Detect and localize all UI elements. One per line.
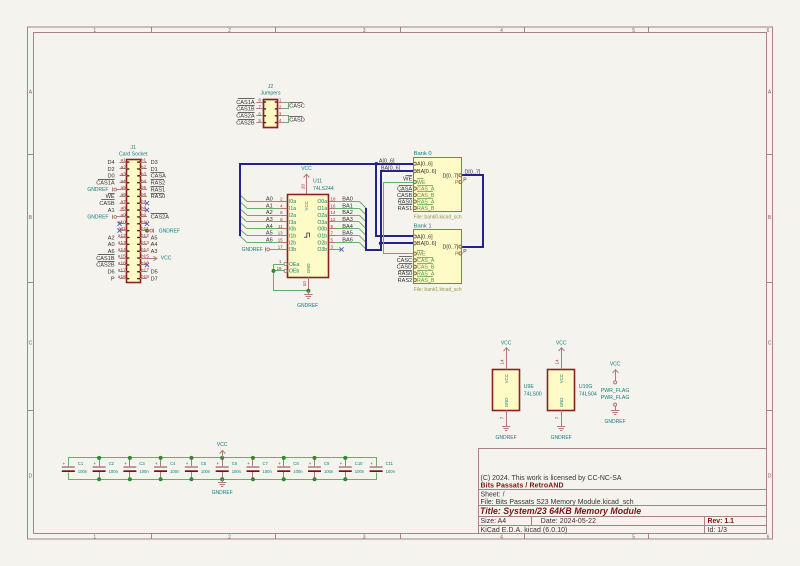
svg-text:CAS_B: CAS_B xyxy=(417,193,435,199)
svg-text:RAS1: RAS1 xyxy=(398,206,413,212)
svg-text:5: 5 xyxy=(632,534,635,540)
svg-text:File: bank1.kicad_sch: File: bank1.kicad_sch xyxy=(414,287,462,293)
power GNDREF at J1 a9 xyxy=(117,216,120,218)
power VCC at capacitor rail xyxy=(222,450,224,458)
svg-text:BA1: BA1 xyxy=(342,203,353,209)
svg-text:CAS2A: CAS2A xyxy=(151,215,170,221)
capacitor C3 xyxy=(123,458,149,479)
svg-text:O0a: O0a xyxy=(317,199,327,205)
svg-text:a15: a15 xyxy=(118,254,126,260)
svg-text:18: 18 xyxy=(331,196,336,201)
svg-text:CAS1B: CAS1B xyxy=(236,107,255,113)
label CASD xyxy=(289,116,302,118)
U9E pin 7 xyxy=(506,410,508,427)
svg-text:b4: b4 xyxy=(141,178,147,184)
svg-text:CASB: CASB xyxy=(99,201,115,207)
capacitor C5 xyxy=(185,458,211,479)
svg-text:WE: WE xyxy=(403,176,412,182)
svg-text:O3b: O3b xyxy=(317,247,327,253)
svg-text:A1: A1 xyxy=(108,208,115,214)
svg-text:GNDREF: GNDREF xyxy=(605,419,626,425)
label RAS1 at Bank 0 xyxy=(399,204,412,206)
frame column labels xyxy=(93,28,769,540)
svg-text:A3: A3 xyxy=(151,249,158,255)
label CASC xyxy=(289,102,302,104)
svg-text:BA4: BA4 xyxy=(342,224,353,230)
no-connect J1 a10 xyxy=(117,222,121,226)
bus BA[0..6] branch to Bank 1 xyxy=(381,242,414,244)
junctions on VCC rail xyxy=(97,456,347,460)
label CASD at Bank 1 xyxy=(399,263,412,265)
power VCC at PWR_FLAG xyxy=(615,370,617,381)
svg-text:GNDREF: GNDREF xyxy=(87,187,108,193)
svg-text:C1: C1 xyxy=(78,461,84,466)
U11 right pin names and numbers xyxy=(317,196,336,253)
svg-text:D[0..7]: D[0..7] xyxy=(443,245,459,251)
svg-text:A6: A6 xyxy=(266,238,273,244)
svg-text:15: 15 xyxy=(278,238,283,243)
svg-text:VCC: VCC xyxy=(559,374,564,383)
svg-text:6: 6 xyxy=(767,534,770,540)
svg-text:a7: a7 xyxy=(120,199,126,205)
svg-text:C5: C5 xyxy=(201,461,207,466)
svg-text:VCC: VCC xyxy=(304,201,309,210)
svg-text:CASC: CASC xyxy=(397,258,413,264)
label CAS1B xyxy=(98,254,115,256)
svg-text:100n: 100n xyxy=(232,469,242,474)
svg-text:P: P xyxy=(455,251,459,257)
label CAS2A xyxy=(238,112,255,114)
label RAS2 xyxy=(151,179,164,181)
svg-text:b12: b12 xyxy=(141,233,149,239)
svg-text:5: 5 xyxy=(632,28,635,34)
wire BA6 xyxy=(336,242,359,244)
svg-text:1: 1 xyxy=(93,534,96,540)
svg-text:CASD: CASD xyxy=(289,117,305,123)
svg-text:J2: J2 xyxy=(268,84,274,90)
svg-text:GND: GND xyxy=(504,398,509,408)
svg-text:12: 12 xyxy=(331,217,336,222)
svg-text:a14: a14 xyxy=(118,247,126,253)
power VCC above U9E xyxy=(506,348,508,370)
svg-text:74LS04: 74LS04 xyxy=(579,391,597,397)
bus entry A4 xyxy=(240,222,247,229)
buffer U11 body xyxy=(288,195,329,278)
svg-text:100n: 100n xyxy=(201,469,211,474)
label RAS1 xyxy=(151,186,164,188)
svg-text:A[0..6]: A[0..6] xyxy=(379,158,395,164)
svg-text:b3: b3 xyxy=(141,171,147,177)
label CAS2B xyxy=(238,119,255,121)
svg-text:b13: b13 xyxy=(141,240,149,246)
wire WE Bank0 to Bank1 xyxy=(384,183,414,254)
svg-text:A[0..6]: A[0..6] xyxy=(417,234,433,240)
label RAS0 xyxy=(151,193,164,195)
svg-text:P: P xyxy=(455,180,459,186)
svg-text:BA6: BA6 xyxy=(342,238,353,244)
svg-text:Bank 0: Bank 0 xyxy=(414,151,432,157)
capacitor C6 xyxy=(216,458,242,479)
ground GNDREF at capacitor rail xyxy=(222,479,224,482)
svg-text:GNDREF: GNDREF xyxy=(242,247,263,253)
svg-text:Title: System/23 64KB Memory M: Title: System/23 64KB Memory Module xyxy=(480,506,641,516)
svg-text:CASB: CASB xyxy=(397,193,413,199)
svg-text:CAS1B: CAS1B xyxy=(96,256,115,262)
svg-text:a13: a13 xyxy=(118,240,126,246)
svg-text:(C) 2024. This work is license: (C) 2024. This work is licensed by CC-NC… xyxy=(481,475,622,482)
svg-text:BA2: BA2 xyxy=(342,210,353,216)
wire J2 pin3 to pin4 xyxy=(285,116,289,123)
svg-text:PWR_FLAG: PWR_FLAG xyxy=(601,395,630,401)
svg-text:Date: 2024-05-22: Date: 2024-05-22 xyxy=(541,518,596,525)
svg-text:C6: C6 xyxy=(232,461,238,466)
svg-text:GNDREF: GNDREF xyxy=(551,435,572,441)
U11 pin 20 (VCC) xyxy=(306,180,308,195)
svg-text:a9: a9 xyxy=(120,213,126,219)
svg-text:VCC: VCC xyxy=(556,340,567,346)
svg-text:b6: b6 xyxy=(141,192,147,198)
wire A0 xyxy=(247,201,280,203)
svg-text:O2b: O2b xyxy=(317,240,327,246)
svg-text:b9: b9 xyxy=(141,213,147,219)
gate U10G power unit xyxy=(548,370,575,411)
svg-text:U11: U11 xyxy=(313,179,322,185)
svg-text:+: + xyxy=(247,461,250,466)
wire GNDREF rail xyxy=(69,473,377,480)
svg-text:U9E: U9E xyxy=(524,384,535,390)
svg-text:+: + xyxy=(278,461,281,466)
svg-text:I3b: I3b xyxy=(289,247,296,253)
svg-text:100n: 100n xyxy=(324,469,334,474)
svg-text:13: 13 xyxy=(278,231,283,236)
label CASB xyxy=(101,199,114,201)
svg-text:BA5: BA5 xyxy=(342,231,353,237)
svg-text:CASA: CASA xyxy=(151,174,167,180)
connector J1 pins xyxy=(120,162,148,279)
frame column ticks xyxy=(152,27,649,539)
U11 buffer glyph xyxy=(304,233,309,237)
svg-text:GNDREF: GNDREF xyxy=(159,228,180,234)
svg-text:Sheet: /: Sheet: / xyxy=(481,492,505,499)
svg-text:O1a: O1a xyxy=(317,206,327,212)
svg-text:BA3: BA3 xyxy=(342,217,353,223)
sheet Bank 0 body xyxy=(414,158,462,212)
svg-text:+: + xyxy=(93,461,96,466)
label CASB at Bank 0 xyxy=(399,191,412,193)
label RAS2 at Bank 1 xyxy=(399,276,412,278)
label CASA xyxy=(151,172,164,174)
capacitor C8 xyxy=(277,458,303,479)
svg-text:20: 20 xyxy=(300,184,305,190)
bus entry A1 xyxy=(240,201,247,208)
svg-text:C: C xyxy=(29,341,33,347)
svg-text:CAS2B: CAS2B xyxy=(96,263,115,269)
svg-text:D1: D1 xyxy=(151,167,158,173)
svg-text:C: C xyxy=(768,341,772,347)
svg-text:BA[0..6]: BA[0..6] xyxy=(417,169,437,175)
capacitor C11 xyxy=(370,461,396,474)
svg-text:b1: b1 xyxy=(141,158,147,164)
svg-text:CASC: CASC xyxy=(289,104,305,110)
svg-text:A3: A3 xyxy=(266,217,273,223)
capacitor C9 xyxy=(308,458,334,479)
svg-text:RAS2: RAS2 xyxy=(151,181,166,187)
label RAS0 at Bank 0 xyxy=(399,198,412,200)
svg-text:16: 16 xyxy=(331,203,336,208)
no-connect J1 a11 xyxy=(117,229,121,233)
bus entry A3 xyxy=(240,215,247,222)
title block frame xyxy=(478,448,766,534)
bus junction A xyxy=(375,162,379,166)
label WE at Bank 0 xyxy=(406,175,413,177)
svg-text:C11: C11 xyxy=(386,461,394,466)
U11 pin 1 OEa xyxy=(274,264,285,266)
power GNDREF at J1 a5 xyxy=(117,189,120,191)
svg-text:A[0..6]: A[0..6] xyxy=(417,162,433,168)
ground GNDREF at PWR_FLAG xyxy=(611,410,619,412)
svg-text:10: 10 xyxy=(302,281,307,287)
bus entry BA5 xyxy=(359,236,366,243)
svg-text:BA[0..6]: BA[0..6] xyxy=(381,166,401,172)
svg-text:A4: A4 xyxy=(266,224,273,230)
svg-text:+: + xyxy=(340,461,343,466)
svg-text:2: 2 xyxy=(228,28,231,34)
wire BA1 xyxy=(336,208,359,210)
svg-text:100n: 100n xyxy=(293,469,303,474)
bus entry A6 xyxy=(240,236,247,243)
ground GNDREF below U9E xyxy=(502,426,510,428)
svg-text:BA[0..6]: BA[0..6] xyxy=(417,241,437,247)
svg-text:74LS244: 74LS244 xyxy=(313,186,334,192)
capacitor C1 xyxy=(62,461,88,474)
no-connect J1 b16 xyxy=(145,263,149,267)
connector J1 pin numbers xyxy=(118,158,149,281)
svg-text:O2a: O2a xyxy=(317,213,327,219)
sheet Bank 0 left pins xyxy=(413,162,436,212)
svg-text:100n: 100n xyxy=(170,469,180,474)
svg-text:GNDREF: GNDREF xyxy=(496,435,517,441)
svg-text:Rev: 1.1: Rev: 1.1 xyxy=(708,518,735,525)
label CAS1A xyxy=(238,98,255,100)
wire A6 xyxy=(247,242,280,244)
label CAS1B xyxy=(238,105,255,107)
svg-text:CAS1A: CAS1A xyxy=(96,181,115,187)
svg-text:C3: C3 xyxy=(139,461,145,466)
svg-text:KiCad E.D.A. kicad (6.0.10): KiCad E.D.A. kicad (6.0.10) xyxy=(481,527,568,534)
svg-text:Id: 1/3: Id: 1/3 xyxy=(708,527,728,534)
svg-text:+: + xyxy=(63,461,66,466)
svg-text:P: P xyxy=(111,276,115,282)
svg-text:OEb: OEb xyxy=(289,269,299,275)
svg-text:C10: C10 xyxy=(355,461,363,466)
junction OEb xyxy=(272,269,276,273)
svg-text:C8: C8 xyxy=(293,461,299,466)
label CASC at Bank 1 xyxy=(399,256,412,258)
svg-text:b2: b2 xyxy=(141,165,147,171)
svg-text:+: + xyxy=(217,461,220,466)
svg-text:3: 3 xyxy=(363,534,366,540)
label CASA at Bank 0 xyxy=(399,185,412,187)
sheet Bank 1 body xyxy=(414,230,462,284)
U10G pin 7 xyxy=(561,410,563,427)
svg-text:PWR_FLAG: PWR_FLAG xyxy=(601,388,630,394)
svg-text:CAS_B: CAS_B xyxy=(417,265,435,271)
svg-text:100n: 100n xyxy=(263,469,273,474)
svg-text:100n: 100n xyxy=(355,469,365,474)
svg-text:CAS2B: CAS2B xyxy=(236,120,255,126)
capacitor C10 xyxy=(339,458,365,479)
svg-text:OEa: OEa xyxy=(289,262,299,268)
U11 pin 19 OEb xyxy=(274,270,285,272)
svg-text:17: 17 xyxy=(278,244,283,249)
svg-text:b5: b5 xyxy=(141,185,147,191)
frame row labels xyxy=(29,90,772,480)
wire A1 xyxy=(247,208,280,210)
wire OE to ground xyxy=(274,265,309,291)
wire J2 pin1 to pin2 xyxy=(285,103,289,109)
label CAS2B xyxy=(98,261,115,263)
bus junction BA xyxy=(379,242,383,246)
svg-text:+: + xyxy=(309,461,312,466)
svg-text:7: 7 xyxy=(500,416,506,419)
svg-text:I0b: I0b xyxy=(289,227,296,233)
bus entry A0 xyxy=(240,195,247,202)
svg-text:GND: GND xyxy=(306,263,311,273)
svg-text:I3a: I3a xyxy=(289,220,296,226)
svg-text:C2: C2 xyxy=(109,461,115,466)
svg-text:D5: D5 xyxy=(151,270,158,276)
capacitor C2 xyxy=(93,458,119,479)
U11 pin 10 (GND) xyxy=(308,277,310,290)
svg-text:4: 4 xyxy=(500,28,503,34)
svg-text:I2b: I2b xyxy=(289,240,296,246)
bus entry BA1 xyxy=(359,208,366,215)
ground GNDREF below U10G xyxy=(557,426,565,428)
svg-text:D0: D0 xyxy=(107,174,114,180)
svg-text:VCC: VCC xyxy=(501,340,512,346)
svg-text:a17: a17 xyxy=(118,267,126,273)
svg-text:a1: a1 xyxy=(120,158,126,164)
svg-text:b14: b14 xyxy=(141,247,149,253)
no-connect J1 b10 xyxy=(145,222,149,226)
svg-text:CAS2A: CAS2A xyxy=(236,114,255,120)
svg-text:I0a: I0a xyxy=(289,199,296,205)
U11 left pin names and numbers xyxy=(278,196,297,253)
svg-text:C4: C4 xyxy=(170,461,176,466)
svg-text:File: bank0.kicad_sch: File: bank0.kicad_sch xyxy=(414,215,462,221)
svg-text:+: + xyxy=(370,461,373,466)
svg-text:RAS_B: RAS_B xyxy=(417,206,435,212)
power VCC above U10G xyxy=(561,348,563,370)
sheet Bank 1 right pins xyxy=(459,245,462,248)
power GNDREF at U11 pin 17 xyxy=(273,249,281,251)
connector J2 body xyxy=(264,100,278,128)
svg-text:100n: 100n xyxy=(386,469,396,474)
svg-text:D[0..7]: D[0..7] xyxy=(443,173,459,179)
svg-text:b17: b17 xyxy=(141,267,149,273)
svg-text:6: 6 xyxy=(767,28,770,34)
svg-text:A0: A0 xyxy=(108,242,115,248)
svg-text:100n: 100n xyxy=(109,469,119,474)
svg-text:D7: D7 xyxy=(151,276,158,282)
svg-text:A1: A1 xyxy=(266,203,273,209)
svg-text:CASD: CASD xyxy=(397,265,413,271)
svg-text:a16: a16 xyxy=(118,261,126,267)
svg-text:2: 2 xyxy=(228,534,231,540)
svg-text:100n: 100n xyxy=(78,469,88,474)
svg-text:19: 19 xyxy=(277,266,282,271)
svg-text:VCC: VCC xyxy=(217,442,228,448)
svg-text:a6: a6 xyxy=(120,192,126,198)
svg-text:A2: A2 xyxy=(266,210,273,216)
wire VCC rail xyxy=(69,458,377,467)
svg-text:Bank 1: Bank 1 xyxy=(414,224,432,230)
wire BA4 xyxy=(336,228,359,230)
svg-text:Size: A4: Size: A4 xyxy=(481,518,507,525)
gate U9E power unit xyxy=(493,370,520,411)
label WE xyxy=(108,193,115,195)
svg-text:Card Socket: Card Socket xyxy=(119,152,148,158)
svg-text:C7: C7 xyxy=(263,461,269,466)
label CAS2A xyxy=(151,213,168,215)
wire A4 xyxy=(247,228,280,230)
svg-text:100n: 100n xyxy=(139,469,149,474)
power VCC above U11 xyxy=(306,174,308,180)
wire BA5 xyxy=(336,235,359,237)
svg-text:RAS0: RAS0 xyxy=(151,194,166,200)
frame row ticks xyxy=(28,155,773,411)
svg-text:O0b: O0b xyxy=(317,227,327,233)
svg-text:A6: A6 xyxy=(108,249,115,255)
wire A2 xyxy=(247,215,280,217)
svg-text:VCC: VCC xyxy=(301,166,312,172)
svg-text:RAS1: RAS1 xyxy=(151,187,166,193)
power VCC at J1 b15 xyxy=(147,258,157,260)
no-connect U11 pin 3 xyxy=(336,249,342,251)
svg-text:1: 1 xyxy=(93,28,96,34)
label RAS0 at Bank 1 xyxy=(399,270,412,272)
svg-text:GNDREF: GNDREF xyxy=(297,303,318,309)
capacitor C7 xyxy=(247,458,273,479)
svg-text:A5: A5 xyxy=(266,231,273,237)
svg-text:I2a: I2a xyxy=(289,213,296,219)
svg-text:U10G: U10G xyxy=(579,384,593,390)
svg-text:C9: C9 xyxy=(324,461,330,466)
svg-text:VCC: VCC xyxy=(504,374,509,383)
svg-text:7: 7 xyxy=(555,416,561,419)
svg-text:14: 14 xyxy=(500,359,506,365)
no-connect J1 b8 xyxy=(145,208,149,212)
bus entry BA3 xyxy=(359,222,366,229)
connector J2 pins xyxy=(256,102,285,123)
svg-text:b18: b18 xyxy=(141,274,149,280)
svg-text:CAS1A: CAS1A xyxy=(236,100,255,106)
svg-text:File: Bits Passats S23 Memory: File: Bits Passats S23 Memory Module.kic… xyxy=(481,499,634,506)
wire BA2 xyxy=(336,215,359,217)
svg-text:74LS00: 74LS00 xyxy=(524,391,542,397)
bus entry A2 xyxy=(240,208,247,215)
bus entry BA0 xyxy=(359,201,366,208)
svg-text:a8: a8 xyxy=(120,206,126,212)
bus D[0..7] xyxy=(462,175,483,247)
bus entry BA6 xyxy=(359,243,366,250)
svg-text:BA0: BA0 xyxy=(342,196,353,202)
svg-text:Bits Passats / RetroAND: Bits Passats / RetroAND xyxy=(481,483,564,490)
svg-text:D[0..7]: D[0..7] xyxy=(465,169,481,175)
svg-text:RAS2: RAS2 xyxy=(398,278,413,284)
ground GNDREF below U11 xyxy=(308,291,310,294)
bus A[0..6] xyxy=(240,164,414,236)
